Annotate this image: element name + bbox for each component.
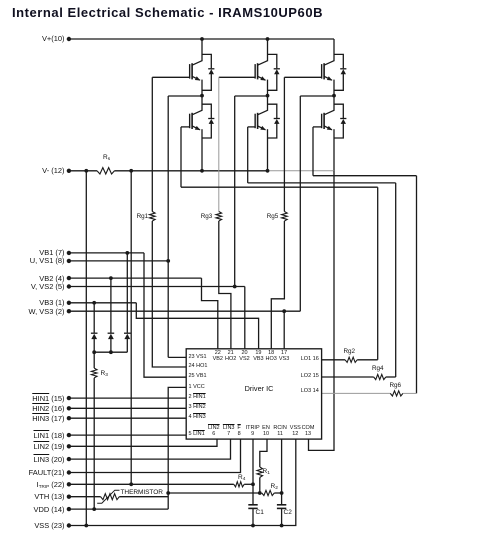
wire VB2 to pin22: [202, 278, 218, 349]
wire node to C2: [281, 493, 283, 505]
diode D3 antiparallel: [274, 68, 280, 70]
wire Q6 emitter stem: [333, 129, 335, 171]
label Rg4: [372, 365, 384, 372]
transistor Q4 body: [258, 110, 268, 115]
wire emitter rail (right, light): [268, 170, 335, 172]
wire Q4 diode bottom jog: [268, 123, 277, 138]
node VS3/pin17 junction: [282, 309, 286, 313]
resistor Rg1: [150, 212, 156, 222]
wire Q6 collector stem: [333, 96, 335, 111]
wire Q4 diode top jog: [268, 104, 277, 118]
wire Q2 emitter stem: [201, 129, 203, 171]
wire C2 to VSS row: [281, 509, 283, 526]
terminal LIN1 dot: [67, 433, 71, 437]
wire LIN3 row to pin7: [69, 439, 231, 459]
title text: [12, 5, 323, 20]
wire Q5 gate column upper: [283, 77, 285, 211]
terminal ITRIP dot: [67, 482, 71, 486]
capacitor C2: [277, 504, 286, 506]
wire bias row: [168, 492, 260, 494]
wire FAULT row to pin8: [69, 439, 241, 472]
wire bus to R3: [93, 352, 95, 368]
wire Rg5 to pin18: [271, 221, 284, 349]
wire Rg4 to LO2 column: [386, 376, 396, 378]
label R1: [263, 468, 270, 478]
wire Q5 gate lead: [284, 76, 321, 78]
label VB3 (1): [0, 298, 65, 307]
wire DB1 (VB3 bootstrap) cathode lead: [93, 303, 95, 333]
pin 18 HO3 label: [256, 350, 286, 363]
node rail/Q2 emitter junction: [200, 169, 204, 173]
wire Q1 gate lead: [152, 76, 189, 78]
label Rs: [103, 154, 110, 164]
wire VS2 to pin20: [244, 287, 246, 349]
wire ITRIP row: [69, 483, 234, 485]
wire W,VS3 terminal row: [69, 310, 300, 312]
pin 13 COM label: [292, 425, 324, 438]
resistor R3: [91, 368, 97, 378]
node VB3/bootstrap-diode junction: [92, 301, 96, 305]
wire C1 to VSS row: [252, 509, 254, 526]
terminal V+(10) dot: [67, 37, 71, 41]
wire Q3 collector stem: [267, 39, 269, 61]
label VSS (23): [0, 521, 65, 530]
wire R4 to pin9 node: [244, 483, 253, 485]
wire Q1 gate column upper: [151, 77, 153, 211]
node R2/RCIN/C2 junction: [280, 491, 284, 495]
diode DB3 (VB1 bootstrap): [124, 332, 131, 334]
wire Rg2 to LO1 column: [357, 359, 378, 361]
node ITRIP/post-Rs junction: [129, 482, 133, 486]
wire U,VS1 terminal row: [69, 260, 168, 262]
resistor R2: [262, 490, 275, 495]
label C2: [284, 509, 292, 517]
wire VS3 to pin17: [283, 311, 285, 349]
wire VB2 row: [69, 277, 202, 279]
diode D1 antiparallel: [208, 68, 214, 70]
wire Q4 emitter stem: [267, 129, 269, 171]
label ITRIP (22): [0, 480, 65, 491]
pin 17 VS3 label: [269, 350, 299, 363]
wire U node to VS1 column: [168, 95, 202, 97]
wire Q6 gate lead: [313, 126, 322, 128]
pin 22 VB2 label: [203, 350, 233, 363]
wire Q3 emitter stem: [267, 80, 269, 96]
label V+(10): [0, 34, 65, 43]
terminal VTH dot: [67, 495, 71, 499]
label Rg2: [344, 348, 356, 355]
pin 23 VS1 label: [189, 354, 207, 361]
resistor R1: [257, 467, 263, 477]
pin 20 VS2 label: [230, 350, 260, 363]
transistor Q2 body: [192, 110, 202, 115]
label LIN1 (18): [0, 431, 65, 440]
label Rg3: [152, 213, 212, 220]
label VDD (14): [0, 505, 65, 514]
wire Q5 diode top jog: [334, 54, 343, 68]
wire Q5 diode bottom jog: [334, 74, 343, 91]
wire Q2 diode top jog: [202, 104, 211, 118]
wire LO2 right column: [395, 183, 397, 377]
label C1: [256, 509, 264, 517]
node VDD/bias junction: [166, 491, 170, 495]
node R4/pin9/C1 junction: [251, 482, 255, 486]
node R1/bias junction: [258, 491, 262, 495]
wire Q6 diode top jog: [334, 104, 343, 118]
terminal W,VS3(2) dot: [67, 309, 71, 313]
wire pin9 stub: [252, 439, 254, 484]
pin 4 HIN3 label: [189, 414, 206, 421]
label U, VS1 (8): [0, 256, 65, 265]
node bus/DB1 junction: [92, 350, 96, 354]
terminal LIN2 dot: [67, 444, 71, 448]
label W, VS3 (2): [0, 307, 65, 316]
node C1/VSS junction: [251, 524, 255, 528]
label R4: [238, 474, 245, 484]
wire LO3 row from IC (light): [322, 392, 391, 394]
wire HIN1 row to IC: [69, 397, 186, 399]
node bus/DB2 junction: [109, 350, 113, 354]
wire Q4 gate row to right: [248, 182, 396, 184]
wire VTH row: [69, 496, 101, 498]
pin 9 ITRIP label: [237, 425, 269, 438]
diode D6 antiparallel: [340, 118, 346, 120]
terminal LIN3 dot: [67, 457, 71, 461]
wire Q6 gate row to right: [313, 175, 417, 177]
diode DB1 (VB3 bootstrap): [91, 332, 98, 334]
pin 3 HIN2 label: [189, 404, 206, 411]
label V, VS2 (5): [0, 282, 65, 291]
node W phase junction: [332, 94, 336, 98]
wire Q6 gate drop: [312, 127, 314, 176]
pin 11 RCIN label: [264, 425, 296, 438]
node V phase junction: [266, 94, 270, 98]
wire R1 to pin10 EN: [260, 439, 267, 467]
node R3/VDD junction: [92, 507, 96, 511]
pin 10 EN label: [250, 425, 282, 438]
pin 14 LO3 label: [279, 388, 319, 395]
terminal FAULT dot: [67, 470, 71, 474]
terminal VSS dot: [67, 523, 71, 527]
wire V- to COM column: [309, 171, 335, 451]
label R3: [101, 370, 108, 380]
wire Q3 diode bottom jog: [268, 74, 277, 91]
wire Q2 diode bottom jog: [202, 123, 211, 138]
label Driver IC: [229, 384, 289, 393]
node VB2/bootstrap-diode junction: [109, 276, 113, 280]
wire Rg3 to pin21: [219, 221, 231, 349]
wire Q5 collector stem: [333, 39, 335, 61]
wire Q3 gate lead: [219, 76, 255, 78]
label V-(12): [0, 166, 65, 175]
node U phase junction: [200, 94, 204, 98]
pin 8 F label: [223, 425, 255, 438]
label FAULT(21): [0, 468, 65, 477]
label VB2 (4): [0, 274, 65, 283]
wire LO3 right column: [416, 176, 418, 394]
terminal HIN2 dot: [67, 406, 71, 410]
pin 15 LO2 label: [279, 373, 319, 380]
pin 19 VB3 label: [243, 350, 273, 363]
wire R2 to RCIN node: [274, 492, 281, 494]
wire Q1 diode top jog: [202, 54, 211, 68]
label HIN3 (17): [0, 414, 65, 423]
capacitor C1: [248, 504, 257, 506]
wire VS3 column: [299, 96, 301, 311]
thermistor RT: [101, 494, 120, 500]
wire V+ rail: [69, 38, 334, 40]
resistor Rg3: [216, 212, 222, 222]
label THERMISTOR: [121, 489, 163, 497]
wire VS2 column: [234, 96, 236, 287]
wire LO2 row from IC: [322, 376, 374, 378]
wire LIN1 row to IC: [69, 434, 186, 436]
transistor Q6 body: [324, 110, 334, 115]
wire DB3 (VB1 bootstrap) cathode lead: [126, 253, 128, 333]
resistor Rg4: [374, 374, 386, 379]
terminal V-(12) dot: [67, 169, 71, 173]
pin 12 VSS label: [279, 425, 311, 438]
diode D4 antiparallel: [274, 118, 280, 120]
node VS2/V-VS2 row junction: [233, 285, 237, 289]
label HIN1 (15): [0, 394, 65, 403]
pin 25 VB1 label: [189, 373, 207, 380]
wire V- sense tap to VSS row: [85, 171, 87, 526]
wire Q3 gate column upper (light): [218, 77, 220, 211]
terminal VDD dot: [67, 507, 71, 511]
pin 24 HO1 label: [189, 363, 208, 370]
wire LIN2 row to pin6: [69, 439, 217, 446]
node VB1/bootstrap-diode junction: [125, 251, 129, 255]
wire Q2 gate lead: [181, 126, 190, 128]
terminal VB3(1) dot: [67, 301, 71, 305]
wire Q5 emitter stem: [333, 80, 335, 96]
pin 2 HIN1 label: [189, 394, 206, 401]
pin 7 LIN3 label: [213, 425, 245, 438]
wire LO1 right column: [377, 187, 379, 360]
wire Q4 collector stem: [267, 96, 269, 111]
wire VDD row: [69, 508, 168, 510]
node V+/Q3 junction: [266, 37, 270, 41]
wire VS1 to pin23: [168, 356, 186, 358]
wire DB1 (VB3 bootstrap) anode lead: [93, 339, 95, 353]
wire Rg1 to pin24: [152, 221, 186, 367]
wire HIN2 row to IC: [69, 407, 186, 409]
wire Q2 collector stem: [201, 96, 203, 111]
wire Q6 diode bottom jog: [334, 123, 343, 138]
wire VDD column to VCC pin1: [168, 387, 186, 509]
wire VSS row to pin12: [69, 439, 296, 525]
wire Q1 diode bottom jog: [202, 74, 211, 91]
terminal HIN1 dot: [67, 396, 71, 400]
pin 5 LIN1 label: [189, 431, 205, 438]
label HIN2 (16): [0, 404, 65, 413]
terminal V,VS2(5) dot: [67, 284, 71, 288]
wire VB3 to pin19: [136, 303, 258, 349]
diode DB2 (VB2 bootstrap): [108, 332, 115, 334]
wire VB1 to pin25: [144, 253, 186, 377]
node VSS/V-sense junction: [84, 524, 88, 528]
wire R3 to VDD row: [93, 378, 95, 509]
wire Q1 collector stem: [201, 39, 203, 61]
wire LO1 row from IC: [322, 359, 346, 361]
wire Q4 gate lead: [248, 126, 255, 128]
resistor Rs: [97, 168, 115, 174]
resistor Rg6: [390, 391, 403, 396]
wire bootstrap anode bus: [94, 351, 127, 353]
wire HIN3 row to IC: [69, 417, 186, 419]
diode D2 antiparallel: [208, 118, 214, 120]
pin 1 VCC label: [189, 384, 205, 391]
wire V- terminal to Rs: [69, 170, 97, 172]
wire VB3 row: [69, 302, 136, 304]
wire W node to VS3 column: [300, 95, 334, 97]
wire Q1 emitter stem: [201, 80, 203, 96]
node rail/Q4 emitter junction: [266, 169, 270, 173]
terminal VB1(7) dot: [67, 251, 71, 255]
wire Q2 gate row to right: [181, 186, 378, 188]
wire VB1 row: [69, 252, 144, 254]
node C2/VSS junction: [280, 524, 284, 528]
label LIN3 (20): [0, 455, 65, 464]
diode D5 antiparallel: [340, 68, 346, 70]
op-amp U1 Driver IC box: [186, 349, 321, 439]
label VB1 (7): [0, 248, 65, 257]
wire Q4 gate drop: [247, 127, 249, 183]
wire DB2 (VB2 bootstrap) anode lead: [110, 339, 112, 353]
resistor Rg5: [282, 212, 288, 222]
wire node to C1: [252, 484, 254, 504]
label Rg6: [390, 382, 402, 389]
node V+/Q1 junction: [200, 37, 204, 41]
pin 16 LO1 label: [279, 356, 319, 363]
pin 6 LIN2 label: [198, 425, 230, 438]
node rail/ITRIP-tap junction: [84, 169, 88, 173]
transistor Q5 body: [324, 61, 334, 65]
wire emitter rail after Rs: [115, 170, 268, 172]
pin 21 HO2 label: [216, 350, 246, 363]
terminal U,VS1(8) dot: [67, 259, 71, 263]
node VS1/U-VS1 row junction: [166, 259, 170, 263]
wire Q2 gate drop: [180, 127, 182, 187]
wire V,VS2 terminal row: [69, 286, 245, 288]
wire R1 bottom: [259, 477, 261, 493]
wire V node to VS2 column: [235, 95, 268, 97]
wire Rg6 to LO3 column (light): [403, 392, 417, 394]
label Rg5: [218, 213, 278, 220]
node rail/post-Rs junction: [129, 169, 133, 173]
label LIN2 (19): [0, 442, 65, 451]
transistor Q3 body: [258, 61, 268, 65]
wire post-Rs tap to ITRIP row: [130, 171, 132, 485]
label R2: [271, 483, 278, 493]
wire thermistor to VDD column: [119, 496, 168, 498]
wire pin11 RCIN stub: [281, 439, 283, 493]
wire DB2 (VB2 bootstrap) cathode lead: [110, 278, 112, 333]
transistor Q1 body: [192, 61, 202, 65]
wire DB3 (VB1 bootstrap) anode lead: [126, 339, 128, 353]
label Rg1: [88, 213, 148, 220]
wire VS1 column: [167, 96, 169, 357]
wire Q3 diode top jog: [268, 54, 277, 68]
resistor Rg2: [345, 357, 357, 362]
resistor R4: [234, 482, 244, 487]
terminal VB2(4) dot: [67, 276, 71, 280]
terminal HIN3 dot: [67, 416, 71, 420]
label VTH (13): [0, 492, 65, 501]
